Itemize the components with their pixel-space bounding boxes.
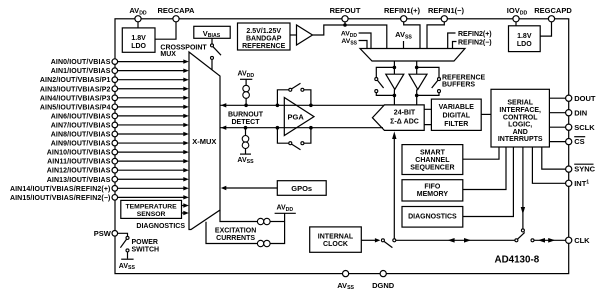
wire ref mux to buffer 1 <box>393 61 395 74</box>
svg-text:DIAGNOSTICS: DIAGNOSTICS <box>408 214 457 221</box>
node chop bottom-right junction <box>309 126 313 130</box>
left pin AIN13 <box>47 176 118 183</box>
switch S-REFBUF1 <box>375 78 384 93</box>
wire REFIN2(-) to ref mux <box>453 42 457 49</box>
wire serial to SYNC <box>542 147 566 169</box>
chip outline border <box>115 19 569 274</box>
switch S-POWER <box>120 236 129 258</box>
gpio box GPOs <box>277 181 326 196</box>
wire X-MUX output bottom rail to ADC <box>220 126 383 130</box>
left pin AIN6 <box>51 113 118 120</box>
wire excitation bottom to AVDD <box>270 213 285 243</box>
wire AIN12 to X-MUX <box>118 168 189 172</box>
wire REFIN2(+) to ref mux <box>448 33 456 49</box>
svg-text:SERIAL: SERIAL <box>507 100 533 107</box>
svg-text:LDO: LDO <box>131 43 146 50</box>
svg-text:REFIN1(+): REFIN1(+) <box>384 6 421 15</box>
top pin REFOUT <box>330 6 361 22</box>
svg-text:PGA: PGA <box>288 112 305 121</box>
svg-text:INTERRUPTS: INTERRUPTS <box>498 136 543 143</box>
left pin AIN8 <box>51 131 118 138</box>
adc 24-BIT sigma-delta ADC <box>372 105 424 130</box>
bottom pin DGND <box>372 271 395 290</box>
wire REGCAPA to analog LDO <box>155 22 176 39</box>
wire AIN8 to X-MUX <box>118 132 189 136</box>
wire excitation top to AVDD <box>270 221 285 223</box>
wire bandgap buffer output to REFOUT node <box>313 25 387 49</box>
svg-text:EXCITATION: EXCITATION <box>215 228 256 235</box>
wire X-MUX to excitation bottom <box>206 222 257 244</box>
left pin AIN14 <box>10 186 118 193</box>
current source excitation bottom <box>257 240 270 246</box>
supply AVDD (burnout) <box>237 71 254 80</box>
fifo box FIFO MEMORY <box>402 180 463 201</box>
wire serial to clock switch (arrow down) <box>521 147 525 232</box>
top pin REFIN1(+) <box>384 6 421 22</box>
vbias box VBIAS <box>194 26 230 39</box>
right pin SCLK <box>566 123 596 132</box>
wire filter to serial interface <box>481 113 491 115</box>
wire AIN13 to X-MUX <box>118 177 189 181</box>
wire clock line to CLK switch <box>396 239 515 241</box>
wire fifo to serial <box>463 147 506 190</box>
svg-text:CURRENTS: CURRENTS <box>216 235 255 242</box>
wire internal clock to switch <box>361 238 380 242</box>
svg-text:AIN0/IOUT/VBIAS: AIN0/IOUT/VBIAS <box>51 59 111 66</box>
left pin AIN3 <box>40 86 118 93</box>
switch S-INTCLK <box>381 239 395 248</box>
wire AIN10 to X-MUX <box>118 150 189 154</box>
wire buffer1 bypass bottom <box>376 93 394 96</box>
svg-text:DETECT: DETECT <box>232 119 261 126</box>
node buffer2 top junction <box>415 66 419 70</box>
clock box INTERNAL CLOCK <box>310 227 362 252</box>
wire REFIN1(-) to ref mux <box>427 22 444 49</box>
svg-text:REFIN1(−): REFIN1(−) <box>428 6 465 15</box>
filter box VARIABLE DIGITAL FILTER <box>431 99 481 130</box>
switch S-CHOP-BOTTOM <box>289 142 304 150</box>
wire buffer2 bypass bottom <box>417 93 439 96</box>
wire bandgap to buffer <box>290 34 297 36</box>
svg-text:CONTROL: CONTROL <box>503 114 538 121</box>
svg-text:TEMPERATURE: TEMPERATURE <box>125 204 177 211</box>
svg-text:REFERENCE: REFERENCE <box>242 43 286 50</box>
right pin INT1 <box>566 179 590 188</box>
op-amp reference buffer 2 <box>409 74 427 89</box>
wire smart sequencer to serial <box>463 147 499 159</box>
wire buffer1 to ADC <box>393 89 395 105</box>
wire REFIN1(+) to ref mux <box>404 22 420 49</box>
svg-text:1.8V: 1.8V <box>131 35 146 42</box>
node buffer1 top junction <box>393 66 397 70</box>
wire AIN1 to X-MUX <box>118 68 189 72</box>
left pin PSW <box>94 229 118 238</box>
switch S-REFBUF2 <box>432 78 441 93</box>
svg-text:AIN13/IOUT/VBIAS: AIN13/IOUT/VBIAS <box>47 177 111 184</box>
arrows bidirectional clock (CLK pin side) <box>538 238 555 243</box>
node REFOUT junction <box>343 23 347 27</box>
wire IOVDD pin to digital LDO <box>515 22 517 26</box>
wire X-MUX output top rail to ADC <box>220 103 384 107</box>
label CROSSPOINT MUX <box>160 44 207 58</box>
svg-text:REFOUT: REFOUT <box>330 6 361 15</box>
node chop top-left junction <box>276 104 280 108</box>
svg-text:DOUT: DOUT <box>574 94 596 103</box>
label REFERENCE BUFFERS <box>442 74 486 88</box>
node burnout top junction <box>244 104 248 108</box>
svg-text:AIN14/IOUT/VBIAS/REFIN2(+): AIN14/IOUT/VBIAS/REFIN2(+) <box>10 186 111 193</box>
svg-text:AIN15/IOUT/VBIAS/REFIN2(−): AIN15/IOUT/VBIAS/REFIN2(−) <box>10 195 111 202</box>
svg-text:SWITCH: SWITCH <box>132 246 160 253</box>
wire clock node to ADC (arrow up) <box>392 131 396 238</box>
right pin DIN <box>566 108 588 117</box>
node chop top-right junction <box>309 104 313 108</box>
wire AIN0 to X-MUX <box>118 59 189 63</box>
wire serial to DIN <box>549 112 565 114</box>
svg-text:LDO: LDO <box>517 41 532 48</box>
svg-text:CLK: CLK <box>574 236 590 245</box>
wire serial to CS <box>549 141 565 143</box>
svg-text:REGCAPA: REGCAPA <box>158 6 196 15</box>
svg-text:AIN6/IOUT/VBIAS: AIN6/IOUT/VBIAS <box>51 113 111 120</box>
wire REFOUT pin stub <box>344 22 346 25</box>
bottom pin AVSS <box>337 271 354 291</box>
temperature sensor box <box>121 200 182 218</box>
svg-text:LOGIC,: LOGIC, <box>508 122 532 129</box>
wire serial to DOUT <box>549 97 565 99</box>
svg-text:FILTER: FILTER <box>444 121 468 128</box>
svg-text:CHANNEL: CHANNEL <box>415 157 450 164</box>
svg-text:REFIN2(+): REFIN2(+) <box>458 31 492 38</box>
wire AIN11 to X-MUX <box>118 159 189 163</box>
wire AIN6 to X-MUX <box>118 114 189 118</box>
wire AIN5 to X-MUX <box>118 105 189 109</box>
op-amp PGA <box>284 98 314 136</box>
svg-text:AIN12/IOUT/VBIAS: AIN12/IOUT/VBIAS <box>47 168 111 175</box>
wire VBIAS stub <box>211 38 213 44</box>
switch S-VBIAS <box>211 44 222 70</box>
svg-text:AIN1/IOUT/VBIAS: AIN1/IOUT/VBIAS <box>51 68 111 75</box>
svg-text:CS: CS <box>574 137 584 146</box>
top pin AVDD <box>129 6 147 22</box>
diagnostics box DIAGNOSTICS <box>402 207 463 228</box>
svg-text:SMART: SMART <box>420 149 446 156</box>
current source burnout bottom <box>242 128 249 154</box>
left pin AIN4 <box>40 95 118 102</box>
wire CLK switch to CLK pin <box>534 239 566 241</box>
svg-text:VARIABLE: VARIABLE <box>439 104 475 111</box>
node buffer1 bottom junction <box>393 94 397 98</box>
svg-text:MUX: MUX <box>160 51 176 58</box>
ground AVSS (burnout) <box>237 154 254 165</box>
left pin AIN12 <box>47 167 118 174</box>
svg-text:AIN11/IOUT/VBIAS: AIN11/IOUT/VBIAS <box>47 159 111 166</box>
wire serial to INT <box>532 147 565 183</box>
svg-text:REFIN2(−): REFIN2(−) <box>458 40 492 47</box>
left pin AIN7 <box>51 122 118 129</box>
op-amp bandgap buffer <box>297 25 313 45</box>
current source excitation top <box>257 218 270 224</box>
right pin SYNC (active low) <box>566 164 596 174</box>
serial interface box <box>491 89 549 147</box>
wire AVDD to ref mux <box>359 33 371 49</box>
wire GPOs to X-MUX <box>221 186 277 190</box>
svg-text:AIN7/IOUT/VBIAS: AIN7/IOUT/VBIAS <box>51 122 111 129</box>
left pin AIN15 <box>10 195 118 202</box>
node burnout bottom junction <box>244 126 248 130</box>
switch S-CLKPIN <box>515 232 534 241</box>
svg-text:MEMORY: MEMORY <box>417 191 449 198</box>
svg-text:SYNC: SYNC <box>574 165 595 174</box>
svg-text:PSW: PSW <box>94 229 112 238</box>
label BURNOUT DETECT <box>228 112 264 126</box>
svg-text:DIGITAL: DIGITAL <box>443 113 471 120</box>
ground AVSS (power switch) <box>119 259 136 271</box>
wire AIN2 to X-MUX <box>118 78 189 82</box>
wire AIN9 to X-MUX <box>118 141 189 145</box>
right pin CLK <box>566 236 591 245</box>
smart channel sequencer box <box>402 145 463 175</box>
wire AIN3 to X-MUX <box>118 87 189 91</box>
svg-text:DIAGNOSTICS: DIAGNOSTICS <box>136 223 185 230</box>
arrows bidirectional clock (internal side) <box>448 238 471 243</box>
svg-text:AND: AND <box>513 129 528 136</box>
svg-text:SENSOR: SENSOR <box>137 211 166 218</box>
svg-text:AIN2/IOUT/VBIAS/P1: AIN2/IOUT/VBIAS/P1 <box>40 77 111 84</box>
svg-text:AIN5/IOUT/VBIAS/P4: AIN5/IOUT/VBIAS/P4 <box>40 104 111 111</box>
wire AIN14 to X-MUX <box>118 186 189 190</box>
svg-text:SEQUENCER: SEQUENCER <box>410 164 454 171</box>
svg-text:AIN10/IOUT/VBIAS: AIN10/IOUT/VBIAS <box>47 150 111 157</box>
left pin AIN10 <box>47 149 118 156</box>
reference mux trapezoid <box>360 49 465 62</box>
svg-text:AD4130-8: AD4130-8 <box>495 255 540 266</box>
wire chop bypass bottom <box>277 128 311 144</box>
current source burnout top <box>243 79 250 105</box>
svg-text:AIN8/IOUT/VBIAS: AIN8/IOUT/VBIAS <box>51 132 111 139</box>
svg-text:DGND: DGND <box>372 281 395 290</box>
svg-text:GPOs: GPOs <box>291 184 312 193</box>
svg-text:REFERENCE: REFERENCE <box>442 74 486 81</box>
left pin AIN11 <box>47 158 117 165</box>
left pin AIN0 <box>51 59 118 66</box>
svg-text:BANDGAP: BANDGAP <box>246 36 282 43</box>
top pin IOVDD <box>507 6 528 22</box>
wire AIN4 to X-MUX <box>118 96 189 100</box>
op-amp reference buffer 1 <box>386 74 404 89</box>
label POWER SWITCH <box>132 239 160 254</box>
wire AIN7 to X-MUX <box>118 123 189 127</box>
svg-text:AIN9/IOUT/VBIAS: AIN9/IOUT/VBIAS <box>51 141 111 148</box>
wire AVSS to ref mux <box>359 41 367 49</box>
svg-text:BUFFERS: BUFFERS <box>442 82 475 89</box>
svg-text:24-BIT: 24-BIT <box>394 110 416 117</box>
wire buffer2 bypass top <box>417 67 439 77</box>
wire serial to SCLK <box>549 126 565 128</box>
svg-text:BURNOUT: BURNOUT <box>228 112 264 119</box>
left pin AIN5 <box>40 104 118 111</box>
top pin REGCAPD <box>534 6 572 22</box>
wire REGCAPD to digital LDO <box>540 22 551 36</box>
right pin CS (active low) <box>566 137 586 147</box>
wire buffer1 bypass top <box>376 67 394 77</box>
label EXCITATION CURRENTS <box>215 228 256 243</box>
regulator U-LDOA 1.8V LDO (analog) <box>122 28 155 52</box>
svg-text:1.8V: 1.8V <box>517 33 532 40</box>
wire PSW to power switch <box>118 233 128 236</box>
mux X-MUX <box>189 52 220 230</box>
svg-text:AIN3/IOUT/VBIAS/P2: AIN3/IOUT/VBIAS/P2 <box>40 86 111 93</box>
left pin AIN9 <box>51 140 118 147</box>
svg-text:SCLK: SCLK <box>574 123 595 132</box>
top pin REFIN1(-) <box>428 6 465 22</box>
node chop bottom-left junction <box>276 126 280 130</box>
svg-text:2.5V/1.25V: 2.5V/1.25V <box>246 28 281 35</box>
wire AVDD pin to analog LDO <box>137 22 139 28</box>
left pin AIN2 <box>40 77 118 84</box>
svg-text:INTERFACE,: INTERFACE, <box>499 107 541 114</box>
wire ADC to digital filter (2 lines) <box>424 109 431 124</box>
switch S-CHOP-TOP <box>289 83 304 91</box>
wire AVSS center stub <box>403 41 405 49</box>
svg-text:CLOCK: CLOCK <box>323 241 348 248</box>
wire temp sensor to X-MUX (2 arrows) <box>182 203 189 215</box>
top pin REGCAPA <box>158 6 196 22</box>
svg-text:REGCAPD: REGCAPD <box>534 6 572 15</box>
wire AIN15 to X-MUX <box>118 195 189 199</box>
wire ref mux to buffer 2 <box>416 61 418 74</box>
left pin AIN1 <box>51 68 118 75</box>
regulator U-LDOD 1.8V LDO (digital) <box>509 26 541 52</box>
wire buffer2 to ADC <box>416 89 418 105</box>
svg-text:X-MUX: X-MUX <box>192 137 216 146</box>
supply AVDD (excitation) <box>275 205 296 214</box>
svg-text:POWER: POWER <box>132 239 158 246</box>
wire chop bypass top <box>277 90 311 106</box>
node buffer2 bottom junction <box>415 94 419 98</box>
svg-text:Σ-Δ ADC: Σ-Δ ADC <box>390 119 419 126</box>
svg-text:AIN4/IOUT/VBIAS/P3: AIN4/IOUT/VBIAS/P3 <box>40 95 111 102</box>
bandgap box 2.5V/1.25V BANDGAP REFERENCE <box>238 23 291 50</box>
svg-text:DIN: DIN <box>574 108 587 117</box>
svg-text:INTERNAL: INTERNAL <box>318 233 354 240</box>
right pin DOUT <box>566 94 596 103</box>
wire X-MUX to excitation top <box>220 210 257 222</box>
svg-text:FIFO: FIFO <box>424 184 440 191</box>
wire diagnostics to serial <box>463 147 514 217</box>
